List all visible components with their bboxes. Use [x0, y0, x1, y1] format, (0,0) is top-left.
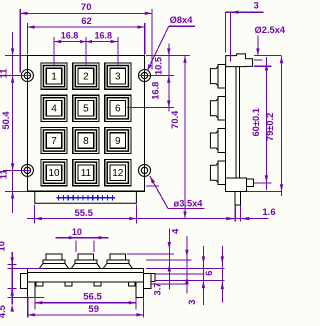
dimension 3 line — [202, 246, 204, 305]
tick at upper hole centre — [3, 75, 30, 77]
front view: keypad body outline — [27, 56, 144, 192]
tick ear bottom — [8, 296, 45, 298]
bottom view: foot tab — [94, 282, 101, 286]
bottom view: button column 2 profile — [78, 254, 94, 260]
side view: body bar — [224, 67, 226, 179]
button 9 — [105, 127, 131, 153]
button 11 — [73, 160, 99, 186]
button 5 — [73, 95, 99, 121]
svg-text:11: 11 — [0, 69, 8, 79]
bottom view: bar inner line — [28, 271, 144, 273]
tick at top for side dims — [146, 55, 190, 57]
svg-text:70.4: 70.4 — [170, 110, 180, 129]
dimension 62 — [27, 26, 144, 28]
button 4 — [41, 95, 67, 121]
side dimension 10.5/16.8 chain line — [168, 44, 170, 112]
tick pin top to 79 dim — [247, 191, 282, 193]
dimension 6 line — [221, 246, 223, 302]
tick cap flare — [8, 264, 17, 266]
svg-text:10: 10 — [0, 241, 6, 251]
dimension 10 (cap width) extension lines — [75, 241, 77, 253]
svg-text:3: 3 — [187, 300, 197, 305]
tick bottom boss centre — [254, 182, 271, 184]
svg-text:16.8: 16.8 — [95, 31, 113, 41]
mounting hole bottom-right — [139, 164, 151, 176]
dimension 4 line — [186, 236, 188, 294]
mounting hole top-right — [139, 70, 151, 82]
tick hole centre to side dims — [139, 75, 175, 77]
svg-text:1: 1 — [51, 71, 57, 82]
svg-text:4: 4 — [170, 228, 180, 234]
dimension 16.8 pair — [54, 41, 118, 43]
side view: button row 2 profile — [218, 97, 226, 121]
bottom view: button column 3 profile — [110, 254, 126, 260]
dimension 55.5 / 1.6 shared line — [27, 218, 268, 220]
svg-text:7: 7 — [51, 136, 57, 147]
side view: top block with step — [226, 54, 253, 67]
svg-text:16.8: 16.8 — [151, 82, 161, 100]
svg-text:10: 10 — [48, 168, 60, 179]
dimension 56.5 — [35, 302, 136, 304]
arrows for 11 top — [11, 48, 14, 55]
svg-text:10.5: 10.5 — [153, 57, 163, 75]
left chain of bottom view (10 / 4.5) — [11, 252, 13, 305]
svg-text:70: 70 — [81, 2, 92, 13]
svg-text:3: 3 — [254, 1, 259, 11]
svg-text:6: 6 — [204, 271, 214, 276]
dimension 62 extension lines — [26, 23, 28, 55]
button 3 — [105, 63, 131, 89]
svg-text:9: 9 — [115, 136, 121, 147]
svg-text:8: 8 — [83, 136, 89, 147]
bottom view: right end cap — [144, 274, 152, 289]
svg-text:6: 6 — [115, 104, 121, 115]
svg-text:56.5: 56.5 — [83, 292, 102, 303]
tick boss bottom — [254, 65, 271, 67]
tick side top to 79 dim — [254, 55, 281, 57]
svg-text:11: 11 — [0, 169, 8, 179]
button 7 — [41, 127, 67, 153]
svg-text:50.4: 50.4 — [1, 111, 11, 130]
connector pins (blue hatch) — [57, 197, 115, 199]
bottom view: foot tab — [128, 282, 135, 286]
side view: button row 3 profile — [218, 129, 226, 153]
dimension 70.4 line — [184, 56, 186, 219]
bottom view: button column 1 profile — [46, 254, 62, 260]
svg-text:10: 10 — [72, 227, 82, 237]
mounting hole bottom-left — [21, 164, 33, 176]
tick boss top — [254, 59, 263, 61]
tick end cap bottom — [8, 287, 17, 289]
label Ø3.5x4 with leader to bottom-right hole — [150, 176, 168, 208]
dimension 1.6 arrows — [226, 217, 235, 220]
dimension 10 — [56, 237, 109, 239]
svg-text:12: 12 — [112, 168, 124, 179]
bottom view: foot tab — [36, 282, 43, 286]
button 10 — [41, 160, 67, 186]
svg-text:4.5: 4.5 — [0, 305, 7, 318]
svg-text:3: 3 — [115, 71, 121, 82]
bottom view: foot tab — [65, 282, 72, 286]
dimension 59 extension lines — [27, 298, 29, 318]
button 2 — [73, 63, 99, 89]
dimension 55.5 extension lines — [34, 205, 36, 224]
svg-text:59: 59 — [88, 304, 99, 315]
arrows for 50.4 — [11, 163, 14, 170]
tick at body bottom right — [146, 185, 159, 187]
tick at body top — [5, 55, 27, 57]
svg-text:3.7: 3.7 — [153, 283, 163, 296]
button 8 — [73, 127, 99, 153]
button 6 — [105, 95, 131, 121]
arrows for 11 bottom — [11, 191, 14, 198]
svg-text:4: 4 — [51, 104, 57, 115]
extension lines right of bottom view — [127, 253, 174, 255]
svg-text:11: 11 — [81, 168, 92, 179]
button 1 — [41, 63, 67, 89]
side view: bottom boss — [246, 179, 253, 186]
svg-text:ø3.5x4: ø3.5x4 — [174, 198, 204, 208]
svg-text:Ø8x4: Ø8x4 — [170, 15, 194, 25]
tick row2 centre to side dims — [127, 107, 174, 109]
bottom view: right ear — [136, 282, 143, 297]
front view: bottom connector tab — [35, 191, 137, 203]
dimension 56.5 extension lines — [34, 298, 36, 310]
dimension 1.6 extension lines — [234, 205, 236, 222]
svg-text:2: 2 — [83, 71, 89, 82]
svg-text:16.8: 16.8 — [61, 31, 79, 41]
dimension 3 top extension lines — [225, 12, 227, 52]
svg-text:60±0.1: 60±0.1 — [251, 108, 261, 136]
dimension 70 — [20, 12, 152, 14]
dimension 3 top — [226, 11, 264, 13]
bottom view: left ear — [27, 282, 35, 297]
button 12 — [105, 160, 131, 186]
mounting hole top-left — [21, 70, 33, 82]
dimension 3.7 line — [168, 229, 170, 290]
dimension 70 extension lines — [19, 9, 21, 73]
svg-text:62: 62 — [81, 16, 92, 27]
side view: button row 4 profile — [218, 161, 226, 185]
side view: bottom block — [225, 178, 246, 191]
dimension 59 — [28, 314, 144, 316]
dimension 79±0.2 line — [281, 56, 283, 196]
tick at body bottom — [5, 190, 27, 192]
tick bar top left — [8, 267, 44, 269]
side view: button row 1 profile — [218, 64, 226, 88]
tick at lower hole centre — [3, 169, 30, 171]
dimension 16.8 (left) and 16.8 (right) extension lines — [53, 37, 55, 66]
bottom view: main bar — [28, 268, 144, 282]
dimension 60±0.1 line — [265, 57, 267, 190]
svg-text:55.5: 55.5 — [74, 208, 93, 219]
svg-text:Ø2.5x4: Ø2.5x4 — [255, 25, 286, 35]
svg-text:5: 5 — [83, 104, 89, 115]
bottom view: right nub — [151, 274, 155, 282]
svg-text:1.6: 1.6 — [262, 207, 275, 218]
bottom view: left end cap — [20, 274, 27, 289]
left dimension chain line (11 / 50.4 / 11) — [12, 32, 14, 213]
svg-text:79±0.2: 79±0.2 — [265, 113, 275, 141]
side view: bottom pin — [235, 191, 240, 205]
